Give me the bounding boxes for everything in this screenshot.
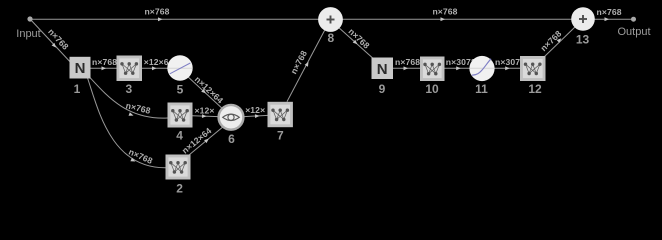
arrowhead 6-7 — [255, 114, 260, 118]
arrowhead 2-6 — [204, 137, 210, 143]
svg-text:n×768: n×768 — [395, 57, 420, 67]
svg-text:4: 4 — [176, 129, 183, 143]
wire input to node 1 — [30, 19, 74, 66]
arrowhead 10-11 — [456, 66, 461, 70]
wire node 2 to node 6 — [189, 126, 224, 155]
wire node 12 to node 13 — [543, 26, 576, 58]
wire node 8 to node 13 (residual) — [331, 18, 583, 20]
svg-text:12: 12 — [528, 82, 542, 96]
svg-text:n×768: n×768 — [144, 7, 169, 17]
wire node 10 to node 11 — [432, 67, 482, 69]
wire node 4 to node 6 — [193, 116, 223, 117]
node 5 split circle — [167, 55, 192, 80]
arrowhead 12-13 — [557, 37, 563, 43]
node 3 linear layer box — [117, 56, 143, 82]
arrowhead 11-12 — [505, 66, 510, 70]
svg-text:3: 3 — [125, 82, 132, 96]
svg-text:n×768: n×768 — [92, 57, 117, 67]
svg-text:N: N — [377, 61, 388, 78]
svg-text:6: 6 — [228, 132, 235, 146]
wire node 11 to node 12 — [482, 67, 533, 69]
node 8 add circle — [318, 7, 343, 32]
svg-text:10: 10 — [425, 82, 439, 96]
wire node 3 to node 5 — [129, 67, 180, 69]
node 1 layer-norm box N — [70, 57, 91, 79]
arrowhead input-1 — [52, 43, 58, 49]
wire node 9 to node 10 — [382, 67, 432, 69]
arrowhead input-8 — [158, 17, 163, 21]
arrowhead 4-6 — [202, 114, 207, 118]
node 11 gelu circle — [469, 56, 494, 81]
wire node 1 to node 4 — [89, 77, 168, 119]
svg-text:n×768: n×768 — [432, 7, 457, 17]
node 10 linear layer box — [420, 57, 445, 82]
node 12 linear layer box — [520, 56, 546, 81]
arrowhead 3-5 — [152, 66, 157, 70]
wire node 1 to node 2 — [87, 77, 166, 168]
svg-text:5: 5 — [177, 82, 184, 96]
node 2 linear layer box — [166, 155, 191, 180]
arrowhead 8-9 — [353, 40, 359, 46]
node 6 attention circle with eye — [219, 105, 244, 130]
svg-text:8: 8 — [327, 31, 334, 45]
arrowhead 9-10 — [404, 66, 409, 70]
svg-text:7: 7 — [277, 128, 284, 142]
node 4 linear layer box — [168, 103, 193, 128]
arrowhead 1-3 — [102, 66, 107, 70]
node 7 linear layer box — [268, 102, 293, 127]
arrowhead 8-13 — [441, 17, 446, 21]
wire node 13 to output — [583, 18, 633, 20]
arrowhead 5-6 — [201, 89, 207, 95]
svg-text:13: 13 — [576, 33, 590, 47]
svg-text:n×768: n×768 — [597, 7, 622, 17]
wire node 1 to node 3 — [80, 67, 129, 69]
svg-text:Input: Input — [16, 28, 40, 40]
arrowhead 7-8 — [305, 61, 311, 67]
wire input to node 8 (residual) — [30, 18, 330, 20]
svg-text:1: 1 — [74, 82, 81, 96]
wire node 5 to node 6 — [186, 75, 225, 111]
arrowhead 13-output — [605, 17, 610, 21]
node 13 add circle — [571, 7, 595, 31]
svg-text:N: N — [75, 60, 86, 77]
node 9 layer-norm box N — [372, 58, 394, 80]
svg-text:9: 9 — [379, 82, 386, 96]
svg-text:2: 2 — [176, 182, 183, 196]
arrowhead 1-2 — [130, 158, 136, 163]
svg-text:11: 11 — [475, 82, 488, 96]
wire node 7 to node 8 — [287, 30, 325, 101]
svg-text:Output: Output — [617, 26, 650, 38]
svg-text:×12×: ×12× — [195, 105, 215, 115]
input terminal dot — [27, 16, 32, 21]
wire node 8 to node 9 — [337, 26, 376, 61]
arrowhead 1-4 — [129, 112, 135, 117]
output terminal dot — [631, 17, 636, 22]
svg-text:×12×: ×12× — [245, 105, 265, 115]
wire node 6 to node 7 — [240, 115, 270, 117]
